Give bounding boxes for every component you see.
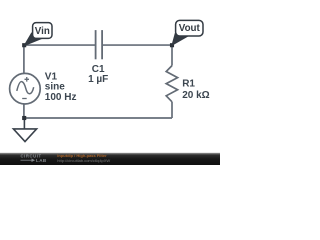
flag Vin (24, 23, 52, 46)
label V1 value (45, 72, 77, 103)
capacitor C1 (96, 30, 103, 59)
wire right rail top: node Vout down to R1 top (171, 45, 173, 66)
node B (Vout junction) (170, 43, 174, 47)
node A (Vin junction) (22, 43, 26, 47)
resistor R1 (166, 66, 177, 102)
svg-text:20 kΩ: 20 kΩ (182, 90, 209, 101)
ground (13, 118, 36, 142)
wire top-left: node Vin to C1 left plate (24, 44, 96, 46)
wire bottom: junction to bottom-right corner (24, 117, 172, 119)
svg-text:Vout: Vout (179, 23, 201, 34)
wire left rail: node Vin down to V1 top terminal (23, 45, 25, 73)
node C (bottom ground junction) (22, 116, 26, 120)
voltage source V1 (sine) (10, 73, 41, 104)
watermark bar (0, 153, 220, 165)
svg-text:1 µF: 1 µF (88, 74, 108, 85)
label R1 value (182, 79, 209, 102)
svg-text:LAB: LAB (36, 158, 47, 163)
wire: V1 bottom terminal down to bottom junction (23, 104, 25, 118)
svg-text:http://circuitlab.com/c6q4pXW: http://circuitlab.com/c6q4pXW (57, 158, 110, 163)
wire right rail bottom: R1 bottom to bottom wire (171, 102, 173, 118)
watermark CircuitLab logo (21, 153, 47, 163)
svg-text:R1: R1 (182, 79, 195, 90)
svg-text:100 Hz: 100 Hz (45, 92, 77, 103)
svg-text:Vin: Vin (35, 26, 50, 37)
wire top-right: C1 right plate to node Vout (102, 44, 172, 46)
flag Vout (172, 20, 203, 45)
label C1 value (88, 64, 108, 85)
